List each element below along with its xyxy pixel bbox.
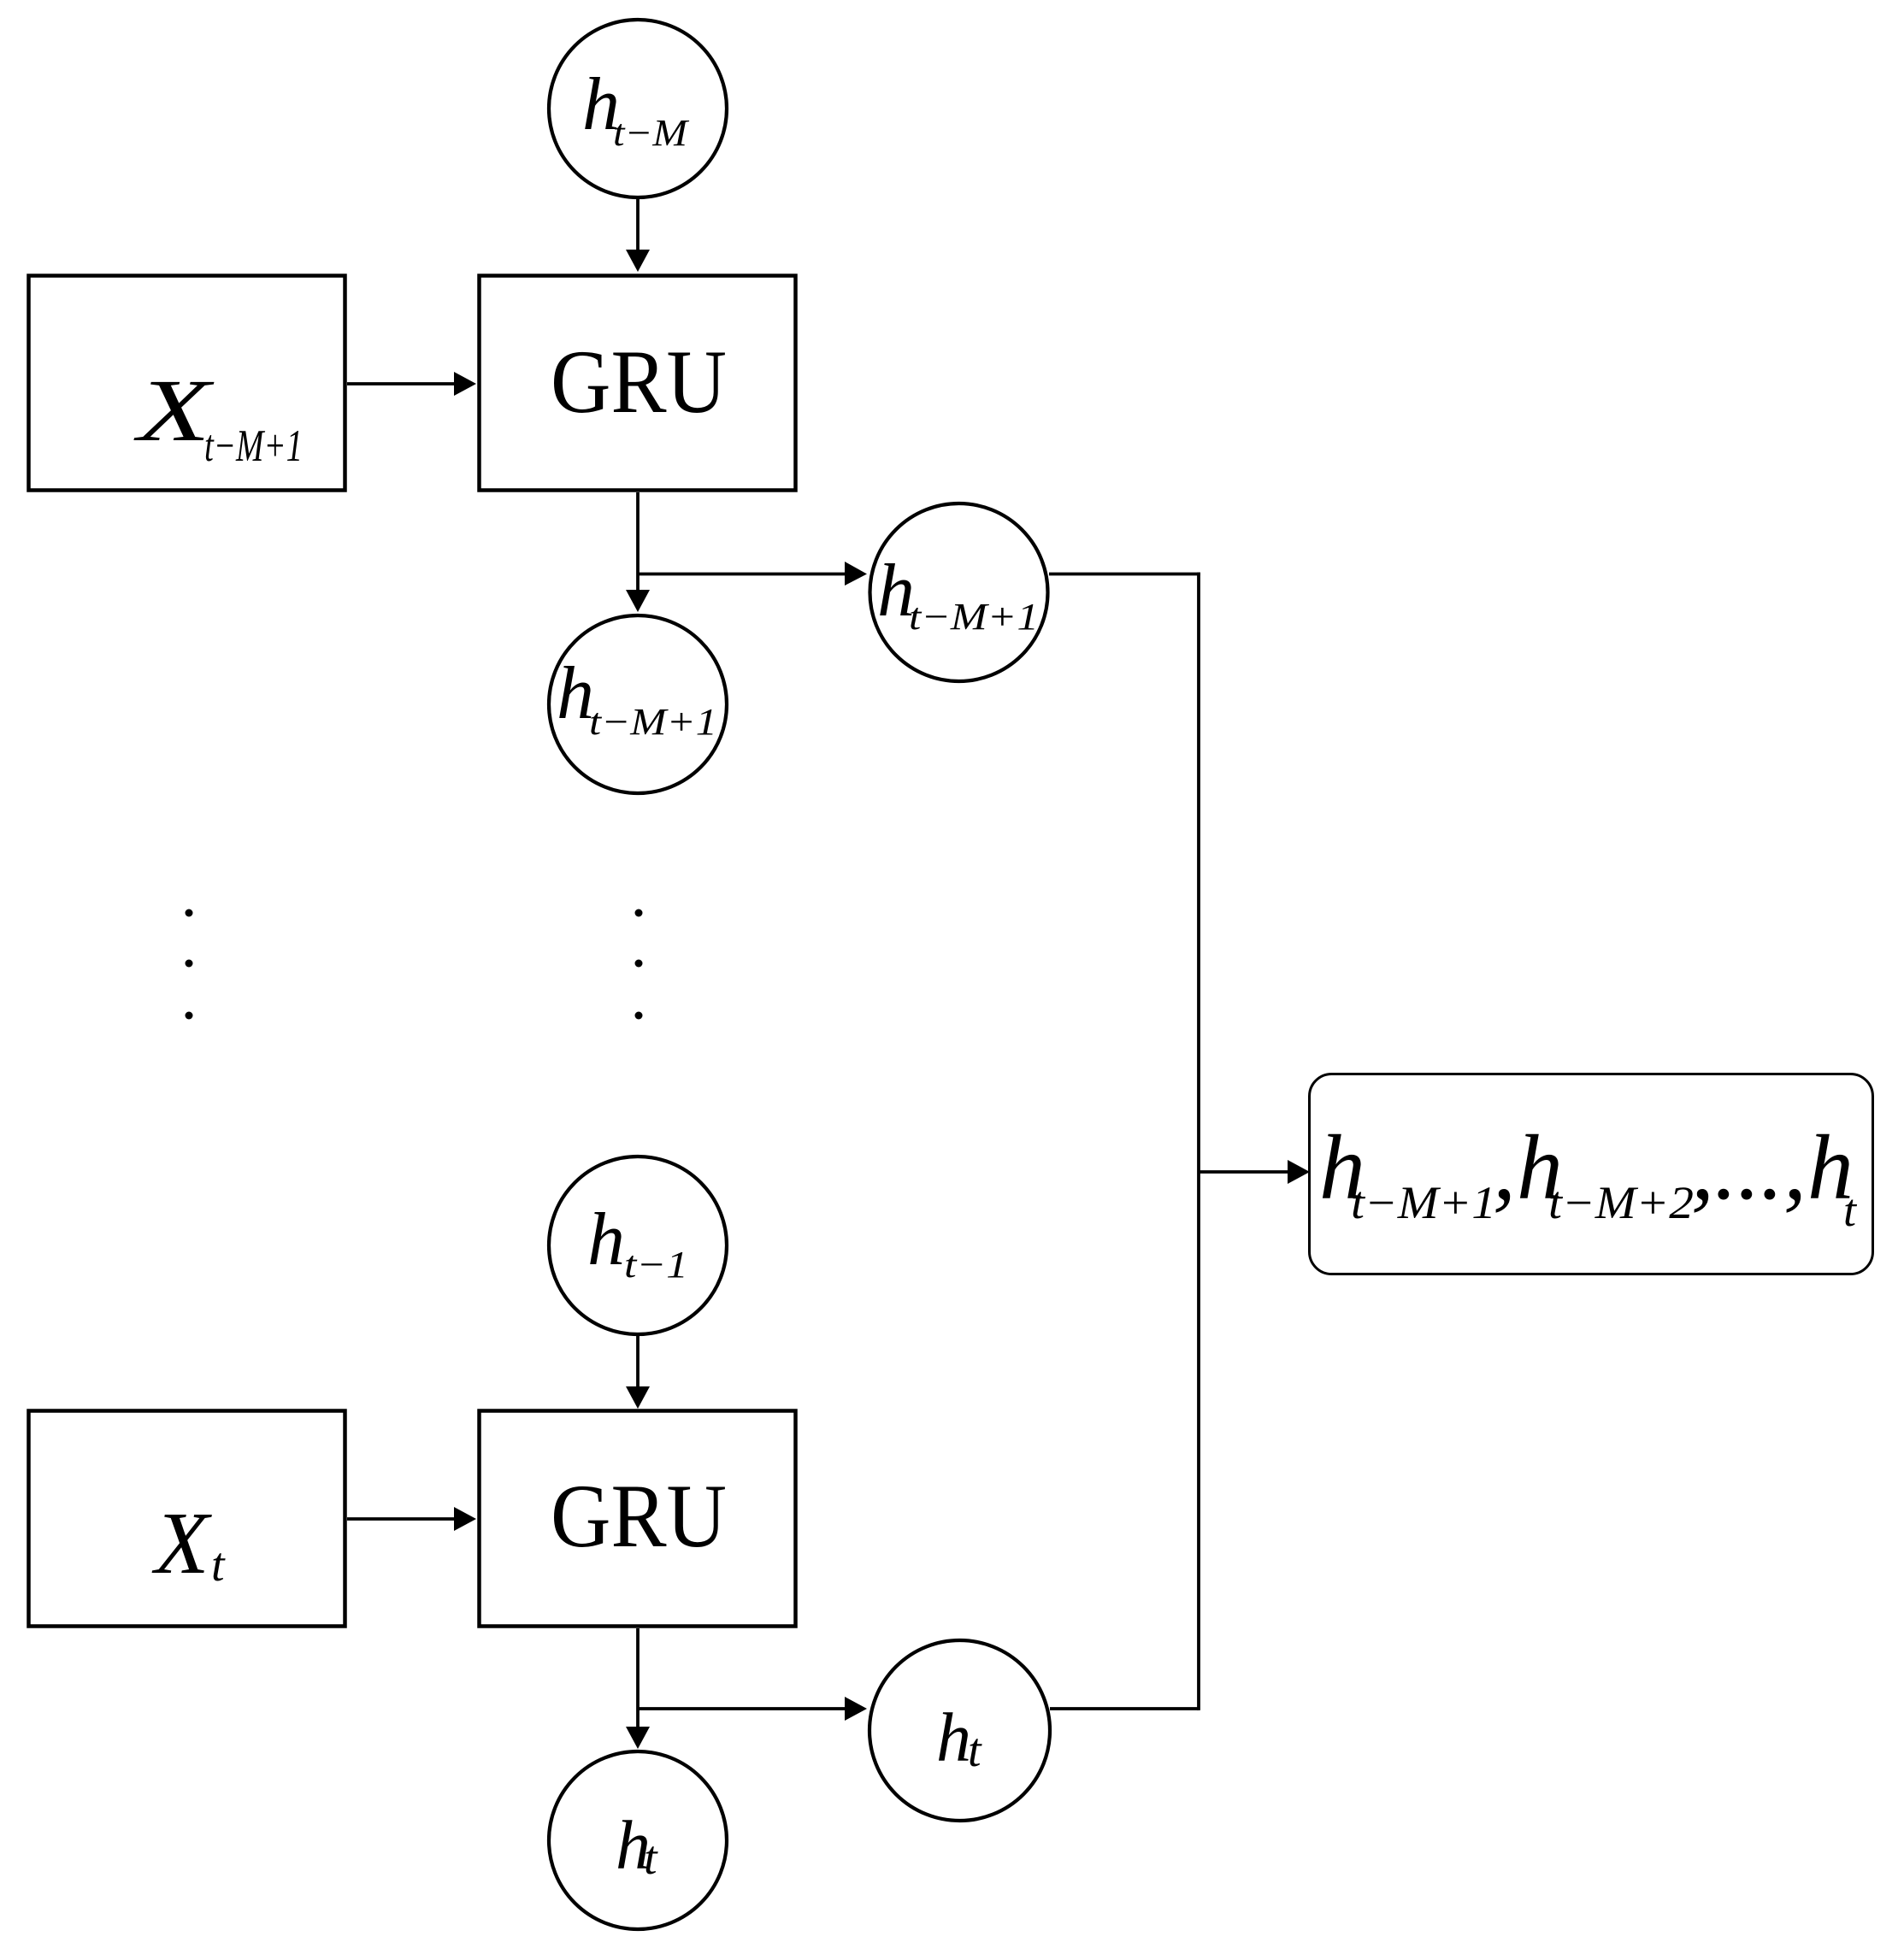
box X_t <box>29 1411 345 1627</box>
svg-text:t−M+1: t−M+1 <box>204 421 303 471</box>
vertical dots middle column <box>635 909 643 1020</box>
node h_t-M+1 (right circle) <box>870 503 1048 681</box>
op block GRU U1 <box>480 276 796 491</box>
wire branch to h_t right circle <box>638 1707 846 1710</box>
svg-text:t−M+1: t−M+1 <box>1351 1177 1496 1228</box>
svg-text:t−M+2: t−M+2 <box>1548 1177 1694 1228</box>
vertical bus wire <box>1197 573 1200 1710</box>
svg-text:h: h <box>936 1698 971 1776</box>
wire h_t right circle to bus <box>1050 1707 1199 1710</box>
wire h_t-M to GRU1 <box>636 199 640 250</box>
node h_t-M+1 (below GRU1) <box>549 615 727 793</box>
svg-text:t: t <box>1843 1185 1858 1236</box>
svg-text:h: h <box>587 1198 625 1281</box>
wire GRU2 down <box>636 1628 640 1727</box>
op block GRU U2 <box>480 1411 796 1627</box>
wire GRU1 down <box>636 492 640 591</box>
svg-text:t−M: t−M <box>613 112 690 154</box>
wire h_t-1 to GRU2 <box>636 1336 640 1387</box>
node h_t-M (top circle) <box>549 20 727 197</box>
svg-text:t−M+1: t−M+1 <box>909 596 1039 638</box>
svg-text:t: t <box>968 1724 982 1777</box>
svg-text:t: t <box>211 1539 226 1592</box>
svg-text:X: X <box>133 362 215 460</box>
output box h_t-M+1 ... h_t <box>1310 1074 1873 1274</box>
svg-text:t−1: t−1 <box>624 1244 688 1286</box>
svg-text:t−M+1: t−M+1 <box>589 701 717 743</box>
wire right circle to vertical bus <box>1049 573 1200 576</box>
svg-text:,: , <box>1493 1117 1516 1219</box>
svg-text:t: t <box>644 1832 658 1885</box>
wire bus to output box <box>1199 1170 1288 1174</box>
node h_t (right circle) <box>869 1640 1050 1821</box>
wire branch to h_t-M+1 right circle <box>638 573 846 576</box>
node h_t (bottom circle) <box>549 1751 727 1929</box>
node h_t-1 <box>549 1157 727 1334</box>
svg-text:GRU: GRU <box>551 332 727 432</box>
svg-text:,...,: ,..., <box>1691 1117 1807 1219</box>
vertical dots left column <box>186 909 193 1020</box>
box X_t-M+1 <box>29 276 345 491</box>
wire X_t-M+1 to GRU1 <box>347 382 455 386</box>
svg-text:GRU: GRU <box>551 1466 727 1566</box>
wire X_t to GRU2 <box>347 1517 455 1521</box>
svg-text:X: X <box>151 1494 212 1592</box>
